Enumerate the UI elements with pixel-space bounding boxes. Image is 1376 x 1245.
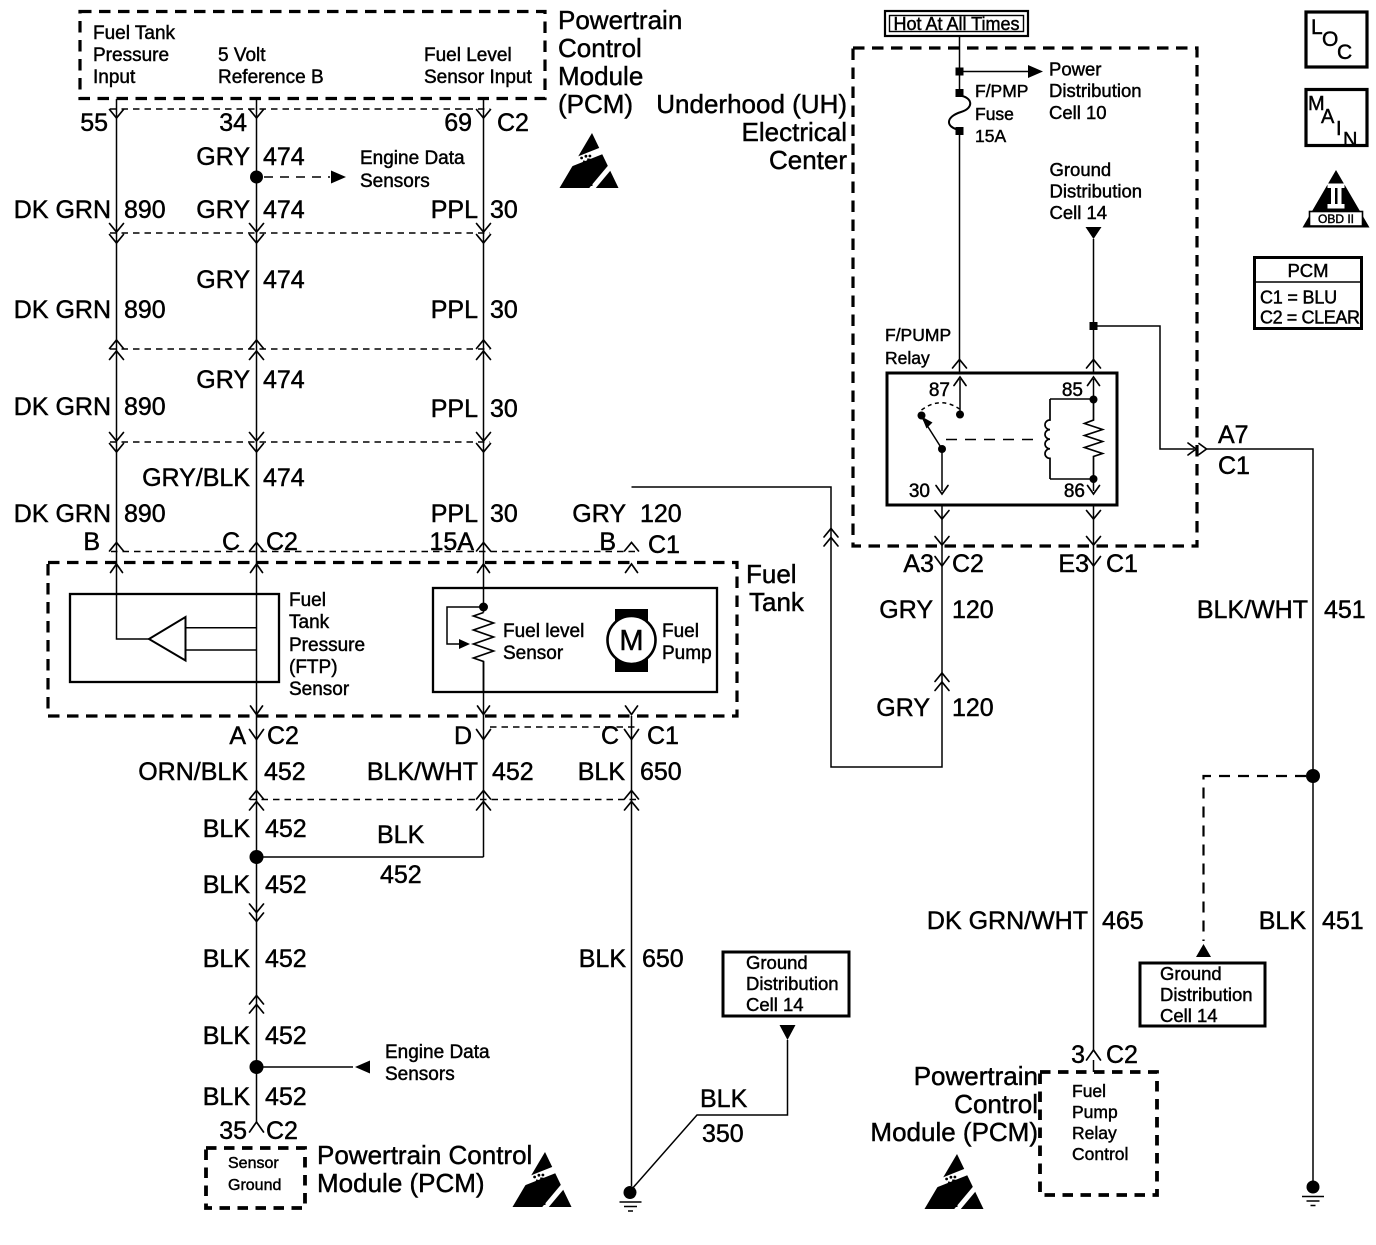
svg-text:N: N: [1343, 129, 1357, 151]
svg-text:Ground: Ground: [228, 1177, 281, 1194]
wire label BLK 451: [1259, 907, 1364, 935]
relay switch arm arrowhead: [922, 417, 933, 429]
svg-text:A3: A3: [903, 550, 934, 578]
svg-text:Electrical: Electrical: [742, 117, 847, 147]
wire label DK GRN 890 row1: [14, 196, 166, 224]
svg-text:OBD II: OBD II: [1318, 212, 1354, 226]
svg-text:87: 87: [929, 380, 950, 401]
connector fork 35 C2: [250, 1122, 264, 1132]
Fuel Pump Relay Control dashed box: [1040, 1072, 1157, 1195]
svg-text:Relay: Relay: [1072, 1123, 1117, 1143]
pin A3 / C2: [903, 550, 984, 578]
svg-text:Sensor Input: Sensor Input: [424, 67, 532, 88]
wire label ORN/BLK 452: [138, 758, 305, 786]
wire node to fuse: [959, 75, 961, 90]
svg-text:C2: C2: [497, 109, 529, 137]
wire relay pin 30 down: [632, 487, 943, 767]
svg-text:BLK: BLK: [578, 758, 626, 786]
wire W3 PPL 30 vertical: [483, 99, 485, 857]
pin E3 / C1: [1058, 550, 1138, 578]
arrowhead power distribution: [1028, 65, 1043, 78]
svg-text:Powertrain: Powertrain: [558, 5, 682, 35]
svg-text:Distribution: Distribution: [1050, 181, 1143, 202]
svg-text:Module (PCM): Module (PCM): [870, 1117, 1038, 1147]
ESD symbol top PCM: [560, 133, 619, 191]
pin A / C2: [229, 722, 299, 750]
svg-text:890: 890: [124, 500, 166, 528]
svg-text:Pump: Pump: [662, 643, 712, 664]
wire label PPL 30 row1: [431, 196, 518, 224]
label F/PMP Fuse 15A: [975, 81, 1028, 146]
svg-text:890: 890: [124, 296, 166, 324]
svg-text:PCM: PCM: [1287, 260, 1328, 281]
svg-text:451: 451: [1322, 907, 1364, 935]
branch wire to A7 connector: [1097, 326, 1194, 449]
svg-text:Distribution: Distribution: [746, 973, 839, 994]
svg-text:PPL: PPL: [431, 196, 478, 224]
label Engine Data Sensors bottom: [385, 1042, 490, 1085]
label Sensor Ground: [228, 1155, 281, 1194]
svg-text:Ground: Ground: [1160, 963, 1222, 984]
fuel level sensor and pump box: [433, 588, 717, 692]
relay resistor: [1085, 400, 1103, 479]
relay coil top rail: [1050, 398, 1094, 400]
wire BLK 350: [631, 1040, 788, 1190]
svg-text:30: 30: [909, 481, 930, 502]
connector chevrons y442: [110, 433, 491, 453]
wire from Hot At All Times: [959, 36, 961, 68]
svg-text:PPL: PPL: [431, 500, 478, 528]
connector forks A3 E3: [935, 557, 1101, 567]
arrowhead engine data sensors top: [331, 171, 346, 184]
wire ground distribution to relay pin 85: [1093, 239, 1095, 373]
wire label GRY/BLK 474 row4: [142, 464, 305, 492]
svg-text:Distribution: Distribution: [1049, 80, 1142, 101]
svg-text:C: C: [1337, 41, 1352, 64]
wire label GRY 474 row2: [196, 266, 305, 294]
svg-text:120: 120: [640, 500, 682, 528]
node square fuse bottom: [956, 127, 964, 135]
svg-text:DK GRN: DK GRN: [14, 500, 111, 528]
wire into fuel pump relay control: [1093, 1060, 1095, 1072]
node square top: [956, 68, 964, 76]
relay pin 30 arrow: [936, 449, 948, 494]
svg-text:BLK: BLK: [1259, 907, 1307, 935]
wire label BLK 452 row e: [203, 1083, 307, 1111]
svg-text:452: 452: [492, 758, 534, 786]
tank exit arrows (down): [251, 706, 638, 715]
svg-text:Fuel Level: Fuel Level: [424, 45, 512, 66]
svg-text:Control: Control: [1072, 1144, 1128, 1164]
Sensor Ground dashed box: [206, 1148, 305, 1208]
ground symbol BLK 451: [1302, 1181, 1324, 1206]
node square fuse top: [956, 89, 964, 97]
wire label DK GRN 890 row2: [14, 296, 166, 324]
dashed ground branch wire: [1204, 776, 1307, 941]
branch wire engine data sensors bottom: [257, 1066, 354, 1068]
label Underhood (UH) Electrical Center: [656, 89, 847, 175]
svg-text:85: 85: [1062, 380, 1083, 401]
svg-text:ORN/BLK: ORN/BLK: [138, 758, 248, 786]
chevrons W2 down y905: [250, 904, 264, 922]
FTP amplifier triangle: [149, 617, 186, 661]
svg-text:C1: C1: [647, 722, 679, 750]
pin C / C1: [601, 722, 679, 750]
svg-text:55: 55: [80, 109, 108, 137]
label Powertrain Control Module (PCM) top: [558, 5, 682, 119]
wire label DK GRN 890 row4: [14, 500, 166, 528]
svg-text:890: 890: [124, 393, 166, 421]
svg-text:(FTP): (FTP): [289, 657, 338, 678]
label Ground Distribution Cell 14 left: [746, 952, 839, 1015]
svg-text:Tank: Tank: [289, 612, 330, 633]
svg-text:Distribution: Distribution: [1160, 984, 1253, 1005]
svg-text:BLK: BLK: [579, 945, 627, 973]
svg-text:Input: Input: [93, 67, 136, 88]
wire label BLK 650 b: [579, 945, 684, 973]
svg-text:C2 = CLEAR: C2 = CLEAR: [1260, 308, 1360, 328]
connector forks y737: [250, 730, 639, 740]
svg-text:Pressure: Pressure: [289, 635, 365, 656]
wire label BLK/WHT 452: [367, 758, 534, 786]
svg-text:C1: C1: [648, 531, 680, 559]
svg-text:452: 452: [265, 1022, 307, 1050]
pin 3 / C2: [1071, 1041, 1138, 1069]
svg-text:Fuel level: Fuel level: [503, 621, 584, 642]
connector A7 chevrons: [1188, 443, 1207, 455]
relay switch arm: [923, 419, 942, 449]
connector dashed line y551: [111, 551, 637, 553]
label BLK 350: [700, 1085, 748, 1148]
svg-text:Center: Center: [769, 145, 847, 175]
junction dot BLK 451 ground branch: [1306, 769, 1320, 783]
svg-text:452: 452: [265, 945, 307, 973]
svg-text:(PCM): (PCM): [558, 89, 633, 119]
svg-text:I: I: [1336, 118, 1342, 140]
relay dashed arc: [922, 403, 960, 410]
svg-text:86: 86: [1064, 481, 1085, 502]
wire relay pin 86 down: [1093, 505, 1095, 1050]
chevrons W2 up y995: [250, 996, 264, 1014]
svg-text:Sensors: Sensors: [360, 171, 430, 192]
fuel level sensor wiper wire: [447, 607, 484, 644]
svg-text:DK GRN: DK GRN: [14, 296, 111, 324]
connector forks y109: [110, 110, 491, 119]
svg-text:F/PMP: F/PMP: [975, 81, 1028, 101]
svg-text:GRY: GRY: [572, 500, 626, 528]
MAIN box: [1306, 90, 1367, 152]
svg-text:Sensors: Sensors: [385, 1064, 455, 1085]
svg-text:Power: Power: [1049, 59, 1101, 80]
relay pin 87 arrow: [954, 377, 966, 415]
relay dashed actuator link: [946, 439, 1033, 441]
connector dashed line y727: [490, 726, 637, 728]
svg-text:Module (PCM): Module (PCM): [317, 1168, 485, 1198]
chevrons GRY 120 up: [935, 673, 949, 691]
svg-text:35: 35: [219, 1117, 247, 1145]
svg-text:34: 34: [219, 109, 247, 137]
svg-text:C2: C2: [267, 722, 299, 750]
Hot At All Times box: [885, 11, 1028, 36]
svg-text:GRY: GRY: [196, 143, 250, 171]
svg-text:A7: A7: [1218, 421, 1249, 449]
fuse F/PMP 15A: [949, 96, 970, 131]
svg-text:474: 474: [263, 143, 305, 171]
connector dashed line y109: [110, 108, 490, 110]
svg-text:474: 474: [263, 464, 305, 492]
svg-text:452: 452: [265, 815, 307, 843]
svg-text:Fuse: Fuse: [975, 104, 1014, 124]
wire label DK GRN 890 row3: [14, 393, 166, 421]
relay switch common node: [918, 412, 926, 420]
label Ground Distribution Cell 14 right: [1160, 963, 1253, 1026]
svg-text:GRY: GRY: [196, 366, 250, 394]
svg-text:Fuel Tank: Fuel Tank: [93, 23, 176, 44]
svg-text:C2: C2: [266, 1117, 298, 1145]
svg-text:BLK/WHT: BLK/WHT: [367, 758, 478, 786]
wire label BLK 452 row b: [203, 871, 307, 899]
svg-text:Module: Module: [558, 61, 643, 91]
connector dashed line y233: [110, 232, 490, 234]
wire label BLK 650 a: [578, 758, 682, 786]
svg-text:E3: E3: [1058, 550, 1089, 578]
svg-text:Cell 14: Cell 14: [746, 994, 804, 1015]
label Fuel level Sensor: [503, 621, 584, 664]
svg-text:BLK: BLK: [203, 945, 251, 973]
svg-text:Engine Data: Engine Data: [360, 148, 465, 169]
FTP sensor box: [70, 594, 279, 682]
svg-text:Powertrain Control: Powertrain Control: [317, 1140, 532, 1170]
svg-text:Sensor: Sensor: [503, 643, 564, 664]
label Fuel Pump: [662, 621, 712, 664]
svg-text:30: 30: [490, 500, 518, 528]
svg-text:DK GRN/WHT: DK GRN/WHT: [927, 907, 1088, 935]
relay connector chevrons below box: [935, 511, 1101, 546]
relay pin 86 arrow: [1088, 479, 1100, 494]
tank entry arrows (up): [111, 564, 638, 573]
label BLK 452 branch: [377, 821, 425, 889]
wire splice branch to D: [257, 856, 484, 858]
PCM pin label Fuel Tank Pressure Input: [93, 23, 176, 88]
svg-text:452: 452: [265, 1083, 307, 1111]
Underhood Electrical Center dashed box: [853, 48, 1197, 546]
wire label GRY 474 row1b: [196, 196, 305, 224]
wire fuse to relay pin 87: [959, 134, 961, 373]
svg-text:BLK: BLK: [377, 821, 425, 849]
svg-text:GRY: GRY: [196, 196, 250, 224]
dashed branch wire to engine data sensors: [264, 176, 330, 178]
connector chevrons y799: [250, 791, 639, 811]
svg-text:BLK: BLK: [203, 815, 251, 843]
wire label GRY 474 row1a: [196, 143, 305, 171]
wire label PPL 30 row3: [431, 395, 518, 423]
svg-text:Reference B: Reference B: [218, 67, 324, 88]
svg-text:F/PUMP: F/PUMP: [885, 325, 951, 345]
svg-text:69: 69: [444, 109, 472, 137]
ground distribution triangle down: [1086, 227, 1102, 239]
svg-text:O: O: [1322, 28, 1338, 51]
svg-text:Relay: Relay: [885, 348, 930, 368]
svg-text:30: 30: [490, 296, 518, 324]
svg-text:GRY: GRY: [196, 266, 250, 294]
relay coil: [1045, 399, 1050, 479]
svg-text:120: 120: [952, 694, 994, 722]
label Power Distribution Cell 10: [1049, 59, 1142, 124]
svg-text:452: 452: [380, 861, 422, 889]
label Fuel Tank: [746, 559, 805, 617]
svg-text:Fuel: Fuel: [662, 621, 699, 642]
svg-text:DK GRN: DK GRN: [14, 196, 111, 224]
pin A7 / C1: [1218, 421, 1250, 480]
wire label GRY 120 at fuel pump: [572, 500, 681, 528]
ground distribution triangle down left: [780, 1025, 796, 1040]
label Engine Data Sensors top: [360, 148, 465, 192]
Ground Distribution Cell 14 box left: [723, 952, 849, 1016]
svg-text:465: 465: [1102, 907, 1144, 935]
svg-text:BLK: BLK: [203, 1083, 251, 1111]
node square A7 branch: [1090, 322, 1098, 330]
relay coil top node: [1090, 396, 1098, 404]
svg-text:L: L: [1311, 16, 1323, 39]
junction dot BLK 452 splice: [250, 850, 264, 864]
ESD symbol bottom right PCM: [925, 1154, 984, 1212]
wire label BLK 452 row a: [203, 815, 307, 843]
svg-text:BLK: BLK: [203, 871, 251, 899]
label Fuel Pump Relay Control: [1072, 1081, 1128, 1164]
PCM pin label Fuel Level Sensor Input: [424, 45, 532, 88]
relay pin 85 arrow: [1088, 377, 1100, 399]
svg-text:C2: C2: [952, 550, 984, 578]
svg-text:30: 30: [490, 395, 518, 423]
svg-text:BLK: BLK: [203, 1022, 251, 1050]
arrowhead engine data sensors bottom: [355, 1061, 370, 1074]
svg-text:Control: Control: [954, 1089, 1038, 1119]
svg-text:Powertrain: Powertrain: [914, 1061, 1038, 1091]
label Ground Distribution Cell 14 top: [1050, 159, 1143, 223]
junction dot GRY 474: [250, 171, 263, 184]
svg-text:474: 474: [263, 366, 305, 394]
label Powertrain Control Module (PCM) bottom right: [870, 1061, 1038, 1147]
relay coil bottom rail: [1050, 478, 1094, 480]
wire label GRY 474 row3: [196, 366, 305, 394]
wire label DK GRN/WHT 465: [927, 907, 1144, 935]
svg-text:Pressure: Pressure: [93, 45, 169, 66]
connector dashed line y799: [250, 799, 637, 801]
ESD symbol bottom left PCM: [513, 1152, 572, 1210]
svg-text:452: 452: [265, 871, 307, 899]
svg-text:M: M: [619, 625, 643, 657]
relay coil bottom node: [1090, 475, 1098, 483]
svg-text:350: 350: [702, 1120, 744, 1148]
svg-text:BLK: BLK: [700, 1085, 748, 1113]
svg-text:650: 650: [640, 758, 682, 786]
svg-text:GRY: GRY: [879, 596, 933, 624]
svg-text:GRY: GRY: [876, 694, 930, 722]
wire label GRY 120 b: [876, 694, 993, 722]
svg-text:Cell 14: Cell 14: [1050, 202, 1108, 223]
connector chevrons y349: [110, 340, 491, 360]
svg-text:Pump: Pump: [1072, 1102, 1118, 1122]
svg-text:Fuel: Fuel: [1072, 1081, 1106, 1101]
svg-text:30: 30: [490, 196, 518, 224]
svg-text:C1: C1: [1106, 550, 1138, 578]
svg-text:452: 452: [264, 758, 306, 786]
svg-text:Control: Control: [558, 33, 642, 63]
svg-text:C: C: [601, 722, 619, 750]
svg-text:3: 3: [1071, 1041, 1085, 1069]
svg-text:15A: 15A: [975, 126, 1006, 146]
svg-text:C2: C2: [266, 528, 298, 556]
svg-text:DK GRN: DK GRN: [14, 393, 111, 421]
svg-text:650: 650: [642, 945, 684, 973]
wire label PPL 30 row4: [431, 500, 518, 528]
pin B / C1 fuel pump: [599, 528, 680, 559]
wire BLK 650 to ground: [631, 716, 633, 1186]
svg-text:C1 = BLU: C1 = BLU: [1260, 288, 1337, 308]
svg-text:451: 451: [1324, 596, 1366, 624]
svg-text:Cell 10: Cell 10: [1049, 102, 1107, 123]
svg-text:Ground: Ground: [1050, 159, 1112, 180]
svg-text:A: A: [1321, 106, 1335, 128]
svg-text:Ground: Ground: [746, 952, 808, 973]
svg-text:D: D: [454, 722, 472, 750]
svg-text:Fuel: Fuel: [746, 559, 797, 589]
svg-text:120: 120: [952, 596, 994, 624]
LOC box: [1306, 12, 1367, 67]
svg-text:A: A: [229, 722, 246, 750]
svg-text:Tank: Tank: [749, 587, 805, 617]
wire label GRY 120 a: [879, 596, 993, 624]
FTP internal wires: [186, 628, 257, 650]
label F/PUMP Relay: [885, 325, 951, 368]
svg-text:PPL: PPL: [431, 296, 478, 324]
svg-text:C2: C2: [1106, 1041, 1138, 1069]
chevrons GRY 120 return up: [824, 529, 838, 547]
connector fork 3 C2: [1087, 1050, 1101, 1060]
branch wire power distribution: [963, 71, 1028, 73]
connector forks y551: [110, 543, 639, 552]
PCM pin label 5 Volt Reference B: [218, 45, 324, 88]
connector dashed line y442: [110, 441, 490, 443]
svg-text:GRY/BLK: GRY/BLK: [142, 464, 250, 492]
Ground Distribution Cell 14 box right: [1140, 963, 1265, 1026]
svg-text:Fuel: Fuel: [289, 590, 326, 611]
svg-text:890: 890: [124, 196, 166, 224]
fuel pump motor circle: [608, 616, 656, 664]
svg-text:474: 474: [263, 266, 305, 294]
fuel level sensor resistor: [474, 613, 494, 693]
F/PUMP relay box: [887, 373, 1117, 505]
svg-text:Cell 14: Cell 14: [1160, 1005, 1218, 1026]
svg-text:B: B: [83, 528, 100, 556]
Fuel Tank dashed box: [48, 563, 737, 717]
svg-text:Sensor: Sensor: [228, 1155, 279, 1172]
relay pin 87 node: [956, 411, 964, 419]
OBD II symbol: [1303, 170, 1370, 228]
label Fuel Tank Pressure (FTP) Sensor: [289, 590, 365, 700]
relay connector chevrons above box: [953, 360, 1101, 369]
fuel pump motor brushes: [615, 609, 648, 622]
PCM top dashed box: [80, 12, 545, 99]
svg-text:C1: C1: [1218, 452, 1250, 480]
ground symbol BLK 650: [620, 1186, 642, 1211]
ground branch triangle up: [1196, 944, 1211, 957]
svg-text:Hot At All Times: Hot At All Times: [893, 14, 1019, 34]
svg-text:Underhood (UH): Underhood (UH): [656, 89, 847, 119]
pin C / C2: [222, 528, 298, 556]
svg-text:BLK/WHT: BLK/WHT: [1197, 596, 1308, 624]
svg-text:Engine Data: Engine Data: [385, 1042, 490, 1063]
